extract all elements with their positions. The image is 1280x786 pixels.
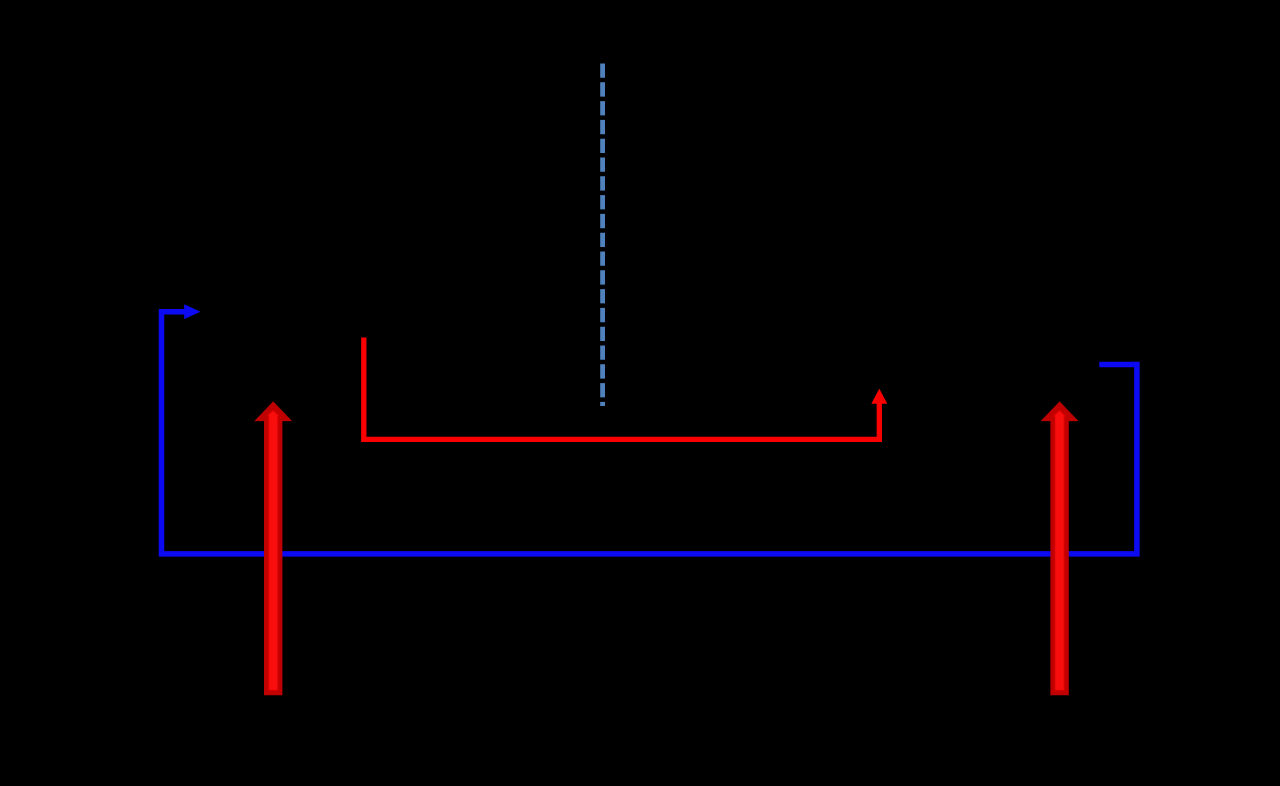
thick red up arrow (right) outer xyxy=(1041,401,1079,695)
wire: blue feedback path (left vertical, bottom horizontal, right vertical) xyxy=(162,312,1137,554)
wire: dashed slate-blue center vertical line xyxy=(600,64,605,407)
node A: blue arrowhead (top-left stub) xyxy=(184,304,200,319)
wire: red path (down, across, up) xyxy=(364,338,880,440)
thick red up arrow (left) outer xyxy=(254,401,292,695)
node B: red arrowhead (small, pointing up) xyxy=(871,389,887,404)
